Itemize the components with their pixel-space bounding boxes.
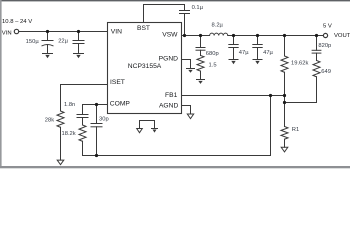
resistor 28k <box>57 111 64 160</box>
wire FB1 <box>182 95 285 97</box>
svg-text:47µ: 47µ <box>263 50 273 56</box>
junction dot FB node <box>283 94 286 97</box>
wire COMP <box>83 105 108 115</box>
pin PGND stub wire <box>182 60 191 69</box>
junction dot 47u first <box>232 34 235 37</box>
svg-text:FB1: FB1 <box>165 92 178 99</box>
svg-text:30p: 30p <box>99 117 109 123</box>
snubber resistor 1.5 <box>197 50 204 79</box>
capacitor C3 0.1u BST <box>180 11 190 36</box>
resistor 18.2k <box>79 125 86 156</box>
svg-text:COMP: COMP <box>110 101 131 108</box>
terminal VIN <box>14 29 18 33</box>
junction dot 30p bottom <box>95 154 98 157</box>
capacitor C2 22u <box>73 32 84 54</box>
ground under 47u second <box>253 60 262 65</box>
svg-text:649: 649 <box>321 69 331 75</box>
ground under 150u <box>43 54 53 59</box>
svg-text:PGND: PGND <box>159 55 178 62</box>
svg-text:19.62k: 19.62k <box>291 60 309 66</box>
ground bracket right <box>152 129 158 133</box>
wire comp riser to FB <box>270 96 272 156</box>
ground arrow under 28k <box>57 160 64 165</box>
junction dot 30p top <box>95 103 98 106</box>
svg-text:R1: R1 <box>292 127 299 133</box>
wire VIN rail <box>19 31 108 33</box>
thermal pad ground bracket <box>140 121 155 129</box>
svg-text:18.2k: 18.2k <box>62 131 76 137</box>
capacitor C1 150u <box>42 32 53 54</box>
svg-text:1.5: 1.5 <box>209 62 217 68</box>
svg-text:VOUT: VOUT <box>334 33 350 39</box>
wire ISET <box>61 85 108 112</box>
svg-text:NCP3155A: NCP3155A <box>128 63 162 70</box>
resistor R1 <box>281 127 288 148</box>
svg-text:28k: 28k <box>45 117 54 123</box>
wire BST trace <box>144 5 185 23</box>
ground under PGND <box>187 69 195 73</box>
svg-text:VIN: VIN <box>111 29 122 36</box>
ground under 47u first <box>229 60 238 65</box>
wire VOUT rail <box>228 35 324 37</box>
capacitor C5 47u second <box>253 36 262 60</box>
resistor 649 <box>313 53 320 102</box>
svg-text:BST: BST <box>137 25 150 32</box>
svg-text:8.2µ: 8.2µ <box>212 23 224 29</box>
svg-text:VSW: VSW <box>162 32 178 39</box>
junction dot 19.62k top <box>283 34 286 37</box>
capacitor C8 30p <box>91 105 102 156</box>
node VIN input labels <box>2 19 32 36</box>
wire FB node vertical <box>284 96 286 127</box>
ground arrow under AGND <box>187 114 193 119</box>
svg-text:22µ: 22µ <box>58 39 68 45</box>
ground under snubber <box>197 80 205 84</box>
svg-text:820p: 820p <box>318 43 331 49</box>
pin AGND stub wire <box>182 106 191 115</box>
svg-text:680p: 680p <box>206 51 219 57</box>
IC U1 NCP3155A body <box>108 23 182 114</box>
wire comp network bottom <box>83 155 271 157</box>
junction dot 820p top <box>315 34 318 37</box>
junction dot BST cap VSW <box>183 34 186 37</box>
svg-text:5 V: 5 V <box>323 23 332 29</box>
snubber capacitor 680p <box>196 36 205 51</box>
junction dot comp riser FB <box>269 94 272 97</box>
svg-text:1.8n: 1.8n <box>64 102 75 108</box>
svg-text:150µ: 150µ <box>26 39 40 45</box>
wire 649 to FB node <box>285 102 317 104</box>
capacitor C7 1.8n <box>77 115 88 126</box>
ground under 22u <box>74 54 84 59</box>
svg-text:VIN: VIN <box>2 30 12 36</box>
terminal VOUT <box>323 33 327 37</box>
junction dot 150u <box>46 30 49 33</box>
ground arrow bracket left <box>137 129 143 133</box>
svg-text:10.8 – 24 V: 10.8 – 24 V <box>2 19 32 25</box>
junction dot 22u <box>77 30 80 33</box>
ground arrow under R1 <box>281 147 288 152</box>
resistor 19.62k <box>281 36 288 96</box>
svg-text:ISET: ISET <box>110 79 125 86</box>
svg-text:0.1µ: 0.1µ <box>192 5 204 11</box>
capacitor C6 820p <box>312 36 321 54</box>
svg-text:AGND: AGND <box>159 102 178 109</box>
junction dot 47u second <box>256 34 259 37</box>
capacitor C4 47u first <box>229 36 238 60</box>
junction dot snubber <box>199 34 202 37</box>
wire VSW segment <box>182 35 210 37</box>
junction dot 649 stub <box>283 101 286 104</box>
svg-text:47µ: 47µ <box>239 50 249 56</box>
inductor L1 8.2u <box>210 33 228 35</box>
